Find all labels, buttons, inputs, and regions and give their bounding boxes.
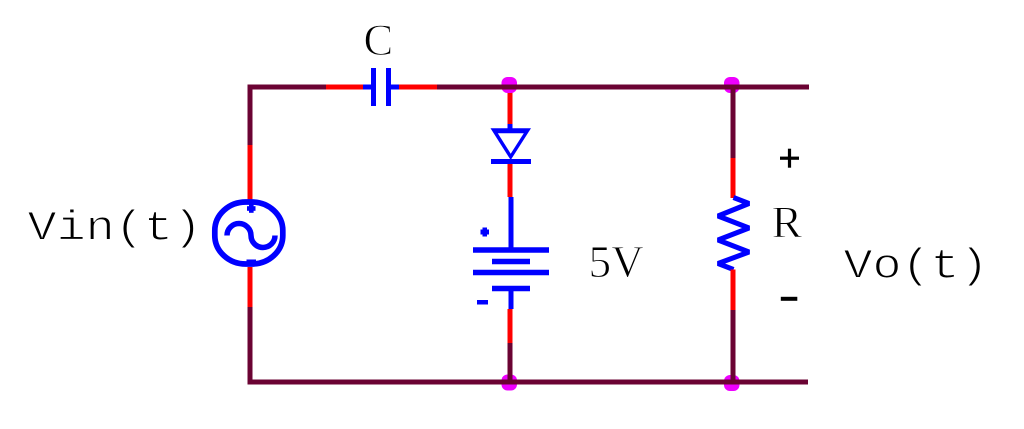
wire red segment right of capacitor — [399, 85, 437, 90]
svg-text:R: R — [772, 197, 803, 248]
wire middle vertical red below top node — [508, 87, 513, 124]
diode D — [491, 124, 532, 164]
wire right vertical maroon upper — [731, 87, 736, 158]
wire red segment left of capacitor — [326, 85, 363, 90]
wire left vertical maroon upper — [248, 85, 253, 146]
voltage source Vin — [215, 202, 283, 265]
wire middle vertical red below battery — [508, 309, 513, 343]
wire right vertical red below resistor — [731, 270, 736, 311]
node junction dot bottom middle — [502, 375, 518, 391]
wire middle vertical maroon above bottom node — [508, 343, 513, 382]
node junction dot bottom right — [724, 375, 740, 391]
wire middle vertical red between diode and battery — [508, 164, 513, 197]
label minus — [781, 297, 798, 301]
svg-text:5V: 5V — [589, 237, 645, 287]
wire left vertical red upper — [248, 145, 253, 200]
wire top horizontal maroon to right end — [437, 85, 809, 90]
svg-text:C: C — [364, 15, 394, 65]
svg-text:Vo(t): Vo(t) — [844, 243, 989, 291]
resistor R — [718, 198, 749, 270]
node junction dot top right — [724, 77, 740, 93]
wire right vertical red above resistor — [731, 158, 736, 198]
wire left vertical red lower — [248, 267, 253, 307]
wire left vertical maroon lower — [248, 307, 253, 385]
wire right vertical maroon lower — [731, 310, 736, 382]
label plus — [780, 149, 799, 168]
capacitor C — [363, 68, 399, 106]
wire top-left horizontal maroon — [248, 85, 327, 90]
wire bottom horizontal maroon — [248, 380, 809, 385]
svg-text:Vin(t): Vin(t) — [28, 205, 203, 253]
battery 5V — [473, 197, 549, 309]
node junction dot top middle — [502, 77, 518, 93]
